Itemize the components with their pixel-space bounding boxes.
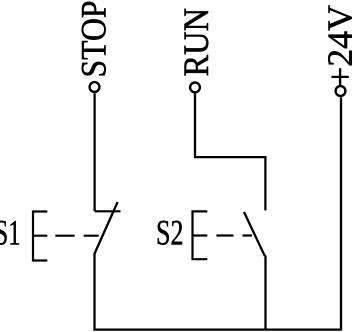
wire S2 to bottom rail — [264, 256, 266, 330]
wire RUN terminal to S2 top — [195, 94, 265, 211]
terminal circle STOP — [90, 82, 100, 92]
pushbutton actuator bracket S2 — [193, 211, 208, 259]
bottom rail wire — [93, 328, 342, 330]
dashed link S1 — [33, 235, 99, 237]
svg-text:RUN: RUN — [176, 8, 216, 77]
terminal circle RUN — [190, 83, 200, 93]
contact blade S1 — [94, 202, 117, 254]
svg-text:S2: S2 — [156, 213, 184, 253]
svg-text:+24V: +24V — [320, 5, 352, 87]
wire S1 to bottom rail — [93, 253, 95, 330]
pushbutton actuator bracket S1 — [33, 212, 47, 261]
contact bar S1 (normally-closed stop) — [95, 210, 121, 212]
wire +24V terminal to bottom rail — [340, 97, 342, 329]
contact blade S2 (normally-open run) — [244, 212, 265, 256]
dashed link S2 — [193, 234, 254, 236]
wire STOP terminal to S1 — [93, 93, 95, 211]
terminal circle +24V — [336, 86, 346, 96]
svg-text:STOP: STOP — [74, 1, 114, 78]
svg-text:S1: S1 — [0, 213, 20, 253]
